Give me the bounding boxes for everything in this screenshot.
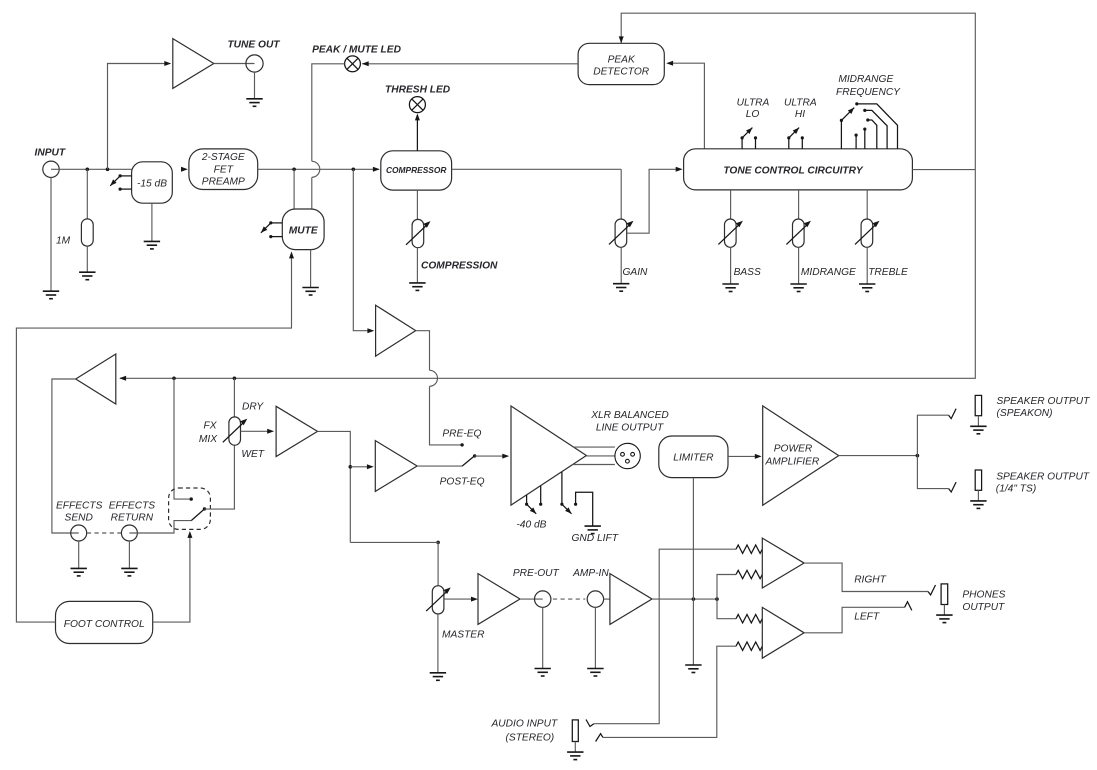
node: arrow into peak detector right — [666, 61, 673, 66]
svg-text:1M: 1M — [56, 236, 71, 247]
svg-text:TUNE OUT: TUNE OUT — [227, 40, 280, 51]
wire: right mixer to phones jack — [804, 563, 928, 591]
wire: bypass path from distribution line to switch contact — [174, 378, 190, 499]
wire: input jack sleeve to ground — [50, 178, 52, 292]
potentiometer VR2 gain — [615, 219, 627, 247]
switch S1 pad select — [120, 175, 132, 177]
op-amp U11 xlr line driver — [511, 406, 586, 505]
wire: input jack to -15dB pad — [51, 168, 132, 170]
wire: bass pot to ground — [730, 247, 732, 284]
svg-text:COMPRESSION: COMPRESSION — [421, 260, 498, 271]
switch S3 ultra lo — [741, 138, 743, 149]
wire: return buffer output to effects send jack — [52, 379, 79, 533]
wire: summing amp output down and to line driver — [318, 431, 351, 542]
node: arrow into tone control — [676, 167, 683, 172]
node junction to tuner amp — [106, 168, 110, 172]
svg-text:-15 dB: -15 dB — [137, 178, 167, 189]
ground below limiter sense — [685, 665, 701, 673]
node: arrow into left return buffer — [119, 376, 126, 381]
op-amp U15 power amp driver — [610, 574, 652, 625]
svg-text:DRY: DRY — [242, 401, 264, 412]
speaker 1/4 jack J7 — [975, 470, 981, 490]
contact spring phones tip — [928, 585, 936, 595]
resistor R2 phones right a — [736, 545, 762, 553]
contact spring 1/4 jack — [949, 482, 957, 492]
wire: preout amp to pre-out jack — [520, 598, 543, 600]
svg-text:HI: HI — [795, 109, 805, 120]
contact spring phones ring — [905, 602, 912, 611]
wire: left mixer to phones jack ring — [804, 607, 905, 633]
wire: normalled dashed link send-return — [87, 532, 121, 534]
LED D2 thresh — [409, 97, 425, 113]
svg-text:PREAMP: PREAMP — [202, 177, 245, 188]
xlr connector J5 — [615, 443, 640, 468]
rotary switch contact 2 — [865, 110, 887, 148]
wire: down to 1M resistor — [86, 169, 88, 219]
wire: top feedback line from tone control to peak detector — [621, 13, 975, 169]
wire: tune out sleeve to ground — [254, 72, 256, 99]
node selector common — [473, 454, 476, 457]
ground below master pot — [430, 673, 446, 681]
wire: xlr pin 1 line — [586, 455, 615, 457]
audio input jack J11 — [572, 720, 578, 742]
wire: line driver branch to master pot — [350, 542, 438, 585]
preamp box U2 2-stage FET preamp — [189, 149, 258, 190]
svg-text:POST-EQ: POST-EQ — [440, 477, 485, 488]
wire: driver output distribution — [652, 598, 717, 600]
svg-text:(SPEAKON): (SPEAKON) — [997, 408, 1053, 419]
svg-text:XLR BALANCED: XLR BALANCED — [590, 410, 669, 421]
svg-text:INPUT: INPUT — [35, 147, 66, 158]
svg-text:DETECTOR: DETECTOR — [593, 66, 649, 77]
svg-text:LEFT: LEFT — [854, 612, 880, 623]
svg-text:LIMITER: LIMITER — [673, 452, 714, 463]
wire: amp-in sleeve to ground — [594, 607, 596, 668]
node: arrow into peak detector top — [619, 36, 624, 43]
wire: branch to post-eq amp — [350, 466, 371, 468]
svg-text:AMPLIFIER: AMPLIFIER — [765, 456, 820, 467]
resistor R5 phones left b — [736, 642, 762, 650]
node junction to phones mixers — [715, 597, 719, 601]
tone control box U6 — [684, 149, 913, 190]
svg-text:MIDRANGE: MIDRANGE — [838, 74, 893, 85]
svg-text:(1/4" TS): (1/4" TS) — [996, 484, 1036, 495]
node: arrow into summing amp — [267, 429, 274, 434]
svg-text:WET: WET — [241, 449, 264, 460]
potentiometer midrange — [793, 219, 805, 247]
wire: fx buffer output down to pre-eq contact (hops distribution line) — [416, 331, 430, 371]
wire: peak detector right input from tone box top — [668, 63, 704, 149]
peak detector box U5 — [578, 43, 664, 84]
wire: send sleeve to ground — [78, 541, 80, 568]
ground below input jack — [43, 291, 59, 299]
wire: return sleeve to ground — [128, 541, 130, 568]
limiter box U12 — [659, 436, 728, 478]
node junction to fx buffer — [352, 168, 356, 172]
node: arrow into preout amp — [471, 597, 478, 602]
wire: -15dB box to ground — [151, 203, 153, 241]
svg-text:AMP-IN: AMP-IN — [572, 568, 609, 579]
effects send jack J3 — [71, 525, 87, 541]
svg-text:GND LIFT: GND LIFT — [572, 533, 619, 544]
wire: gain wiper to tone control input — [627, 169, 680, 233]
node: arrow into mute bottom — [289, 252, 294, 259]
wire: down to left-mix resistor — [717, 599, 736, 619]
switch S4 ultra hi — [788, 138, 790, 149]
svg-text:PHONES: PHONES — [962, 590, 1005, 601]
wire: up to tuner amp input — [108, 64, 168, 170]
svg-text:LINE OUTPUT: LINE OUTPUT — [596, 423, 664, 434]
svg-text:PRE-OUT: PRE-OUT — [513, 568, 560, 579]
node: arrow into compressor — [373, 167, 380, 172]
resistor R3 phones right b — [736, 570, 762, 578]
wire: midrange pot to ground — [798, 247, 800, 284]
node: arrow into power amp — [755, 454, 762, 459]
tune out jack J2 — [246, 55, 263, 72]
wire: tone box to treble pot — [866, 190, 868, 219]
svg-text:TREBLE: TREBLE — [868, 267, 908, 278]
wire: stereo input right channel riser — [594, 549, 736, 724]
wire: power amp output — [839, 455, 918, 457]
node switch common — [203, 507, 206, 510]
potentiometer VR4 master — [432, 586, 444, 614]
wire: tone box to bass pot — [730, 190, 732, 219]
wire: limiter to power amplifier — [728, 455, 760, 457]
wire: up to right-mix resistor — [717, 575, 736, 600]
foot control box — [56, 601, 153, 643]
ground below tune out — [246, 99, 262, 107]
dashed enclosure around fx loop switch — [169, 488, 211, 529]
op-amp U10 post-eq amp — [375, 441, 417, 492]
ground below amp-in — [587, 669, 603, 677]
contact spring speakon jack — [949, 409, 957, 419]
node: arrow into LED right — [362, 61, 369, 66]
svg-text:2-STAGE: 2-STAGE — [201, 152, 245, 163]
compressor box U4 — [381, 151, 452, 190]
node: arrow into post-eq amp — [367, 464, 374, 469]
wire: xlr pin 3 line — [573, 464, 615, 466]
wire: foot control to fx loop switch — [153, 534, 190, 623]
potentiometer treble — [861, 219, 873, 247]
node junction to bypass switch — [172, 377, 176, 381]
ground below gain pot — [613, 284, 629, 292]
wire: treble pot to ground — [866, 247, 868, 284]
svg-text:AUDIO INPUT: AUDIO INPUT — [491, 718, 558, 729]
ground below pre-out — [535, 669, 551, 677]
wire: xlr pin 2 line — [573, 446, 615, 448]
wire: master pot to ground — [437, 614, 439, 673]
node junction to mute — [292, 168, 296, 172]
node: arrow into fx buffer — [367, 328, 374, 333]
rotary switch S5 midrange frequency - common — [840, 120, 842, 148]
wire: dry side from distribution line to fx mix pot — [233, 378, 235, 417]
svg-text:GAIN: GAIN — [623, 267, 649, 278]
contact audio input right — [586, 720, 594, 727]
svg-text:SEND: SEND — [65, 512, 94, 523]
svg-text:FOOT CONTROL: FOOT CONTROL — [64, 619, 145, 630]
attenuator box -15dB — [132, 162, 173, 203]
ground below mute — [302, 288, 318, 296]
svg-text:PEAK: PEAK — [608, 54, 636, 65]
wire: stereo input left channel riser — [603, 646, 736, 737]
wire: junction down to mute box — [293, 169, 295, 209]
svg-text:THRESH LED: THRESH LED — [385, 84, 451, 95]
op-amp U16 phones right mixer — [762, 538, 804, 588]
node: arrow into tuner amp — [164, 61, 171, 66]
wire: up to speakon output — [917, 415, 948, 455]
ground for gnd lift — [585, 526, 601, 534]
node junction at limiter sense — [692, 597, 696, 601]
speakon jack J6 — [975, 395, 981, 415]
rotary switch contact 3 — [868, 120, 877, 149]
LED D1 peak/mute — [345, 56, 361, 72]
wire: mute to ground — [310, 250, 312, 288]
wire: compressor output to gain pot — [452, 168, 622, 170]
ground below bass pot — [722, 284, 738, 292]
mute box U3 — [282, 209, 324, 250]
svg-text:MIDRANGE: MIDRANGE — [801, 267, 856, 278]
wire: tuner amp to tune out jack — [214, 63, 255, 65]
svg-text:(STEREO): (STEREO) — [506, 732, 555, 743]
effects return jack J4 — [121, 525, 137, 541]
switch S9 contact to ground — [576, 492, 593, 526]
switch S7 pre/post-eq lever — [462, 456, 474, 466]
wire: peak detector output to peak/mute LED — [362, 63, 578, 65]
node junction to post-eq amp — [349, 465, 353, 469]
svg-text:MIX: MIX — [199, 434, 218, 445]
phones jack J10 — [941, 584, 948, 605]
input jack J1 — [43, 161, 59, 177]
svg-text:PEAK / MUTE LED: PEAK / MUTE LED — [312, 45, 402, 56]
wire: switch common to wet side of fx mix pot — [205, 445, 235, 509]
node: arrow into thresh LED — [415, 114, 420, 121]
svg-text:RETURN: RETURN — [111, 512, 154, 523]
svg-text:FX: FX — [203, 421, 217, 432]
wire: normalled dashed link preout-ampin — [553, 598, 585, 600]
svg-text:OUTPUT: OUTPUT — [962, 602, 1005, 613]
potentiometer VR1 compression — [412, 219, 424, 247]
svg-text:EFFECTS: EFFECTS — [56, 500, 103, 511]
wire: down to 1/4 inch speaker output — [917, 456, 948, 489]
switch S9 lever — [562, 504, 572, 514]
wire: 1M to ground — [86, 246, 88, 272]
op-amp U14 preout buffer — [478, 574, 520, 625]
svg-text:MASTER: MASTER — [442, 630, 485, 641]
ground below compression pot — [409, 283, 425, 291]
rotary switch contact 4 — [864, 129, 866, 149]
wire: pre-out sleeve to ground — [542, 607, 544, 668]
ground below midrange pot — [790, 284, 806, 292]
wire: selector to xlr line driver — [475, 455, 508, 457]
op-amp U17 phones left mixer — [762, 607, 804, 658]
ground below -15dB box — [144, 241, 160, 249]
node output junction — [916, 454, 920, 458]
wire: compression pot to ground — [416, 248, 418, 283]
svg-text:BASS: BASS — [734, 267, 761, 278]
svg-text:COMPRESSOR: COMPRESSOR — [386, 165, 447, 175]
wire: compressor to thresh LED — [416, 115, 418, 151]
svg-text:LO: LO — [746, 109, 760, 120]
wire: junction to ground — [692, 599, 694, 665]
switch S8 lever — [527, 504, 537, 514]
ground below effects return — [121, 568, 137, 576]
op-amp U1 tuner buffer — [173, 39, 214, 89]
svg-text:EFFECTS: EFFECTS — [109, 500, 156, 511]
node junction to fx mix dry — [233, 377, 237, 381]
wire: foot control to mute — [16, 254, 291, 623]
resistor R1 1M — [81, 219, 93, 246]
wire: amp-in to power amp driver — [604, 598, 610, 600]
svg-text:MUTE: MUTE — [289, 226, 319, 237]
svg-text:FET: FET — [214, 164, 234, 175]
wire: preamp output to compressor — [258, 168, 379, 170]
svg-text:SPEAKER OUTPUT: SPEAKER OUTPUT — [996, 472, 1090, 483]
wire: LED to mute box (crosses main line with hop) — [312, 64, 345, 162]
wire: limiter side-chain vertical — [692, 478, 694, 599]
contact audio input left — [596, 734, 603, 742]
node: arrow into line driver — [502, 454, 509, 459]
resistor R4 phones left a — [736, 615, 762, 623]
wire: fx mix wiper to summing amp — [241, 430, 272, 432]
wire: master wiper to preout amp — [444, 598, 475, 600]
node master branch dot — [436, 541, 440, 545]
wire: compressor bottom to compression pot — [416, 190, 418, 219]
potentiometer VR3 fx mix — [229, 417, 241, 445]
wire: fx buffer branch from main line — [353, 169, 371, 330]
wire: gain pot to ground — [620, 247, 622, 283]
wire: tone control output to right vertical — [912, 169, 975, 171]
ground below effects send — [71, 568, 87, 576]
op-amp U13 power amplifier — [763, 406, 839, 505]
svg-text:POWER: POWER — [774, 444, 813, 455]
svg-text:-40 dB: -40 dB — [516, 520, 546, 531]
wire: right-side vertical down to lower distribution line — [120, 170, 975, 379]
rotary switch contact 1 — [857, 104, 898, 149]
op-amp U8 return buffer (left-pointing) — [76, 354, 116, 404]
switch S8 stub B — [540, 486, 542, 505]
op-amp U7 fx buffer — [376, 305, 416, 356]
potentiometer bass — [725, 219, 737, 247]
node bypass switch upper contact — [190, 497, 193, 500]
op-amp U9 summing amp — [276, 406, 317, 456]
wire: return jack to switch pole — [129, 521, 191, 533]
rotary switch contact 5 — [855, 135, 857, 149]
svg-text:SPEAKER OUTPUT: SPEAKER OUTPUT — [997, 396, 1091, 407]
node: arrow to fx switch lever — [187, 531, 192, 538]
node junction on input line — [86, 168, 90, 172]
svg-text:PRE-EQ: PRE-EQ — [442, 429, 481, 440]
svg-text:FREQUENCY: FREQUENCY — [836, 87, 901, 98]
node: arrow into preamp — [181, 167, 188, 172]
svg-text:ULTRA: ULTRA — [784, 98, 817, 109]
switch S8 -40dB pad stub A — [526, 495, 528, 504]
pre-out jack J8 — [535, 591, 551, 607]
ground below treble pot — [859, 284, 875, 292]
switch S6 fx loop lever — [191, 510, 204, 521]
ground below 1M — [79, 272, 95, 280]
switch S2 mute control stubs — [271, 222, 283, 224]
wire: post-eq amp output to selector — [417, 465, 462, 467]
svg-text:RIGHT: RIGHT — [854, 575, 886, 586]
wire: tone box to midrange pot — [798, 190, 800, 219]
amp-in jack J9 — [587, 591, 603, 607]
svg-text:TONE CONTROL CIRCUITRY: TONE CONTROL CIRCUITRY — [723, 166, 863, 177]
node pre-eq contact — [460, 443, 463, 446]
switch S9 gnd lift stub — [561, 472, 563, 504]
svg-text:ULTRA: ULTRA — [737, 98, 770, 109]
